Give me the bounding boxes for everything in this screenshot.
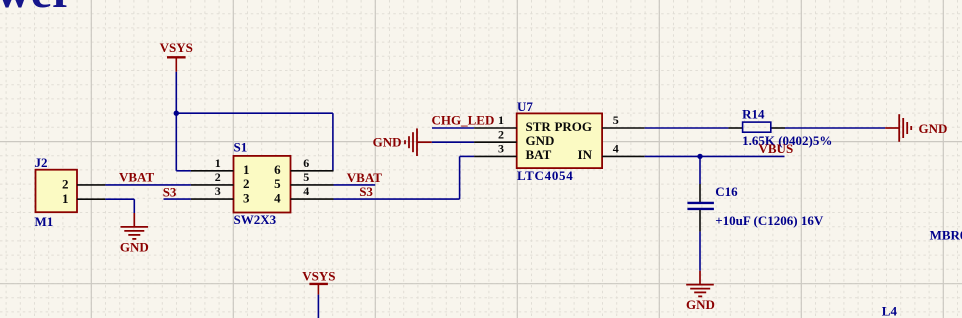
pin S1.6	[291, 156, 334, 171]
svg-text:U7: U7	[517, 99, 533, 114]
pin U7.2	[474, 127, 517, 142]
svg-text:GND: GND	[120, 239, 149, 254]
svg-text:3: 3	[215, 184, 221, 198]
power port VSYS (bottom)	[302, 268, 335, 294]
wire VBAT stub from S1.5	[334, 184, 376, 186]
svg-text:+10uF (C1206) 16V: +10uF (C1206) 16V	[715, 213, 824, 228]
wire U7.5 to R14	[645, 127, 729, 129]
svg-text:1: 1	[215, 156, 221, 170]
svg-text:VSYS: VSYS	[160, 40, 193, 55]
pin S1.4	[291, 184, 334, 199]
pin J2.2	[77, 184, 105, 186]
svg-text:SW2X3: SW2X3	[234, 212, 277, 227]
wire CHG_LED to U7.1	[432, 127, 474, 129]
svg-text:5: 5	[613, 113, 619, 127]
svg-text:4: 4	[303, 184, 309, 198]
svg-text:6: 6	[303, 156, 309, 170]
svg-text:5: 5	[274, 176, 281, 191]
pin U7.3	[474, 142, 517, 157]
wire VSYS branch to S1 pin6	[176, 113, 333, 171]
svg-text:S3: S3	[163, 184, 177, 199]
svg-text:2: 2	[62, 177, 69, 192]
pin U7.4	[602, 142, 645, 157]
pin J2.1	[77, 198, 105, 200]
svg-text:IN: IN	[578, 147, 593, 162]
svg-text:1: 1	[498, 113, 504, 127]
svg-text:VBUS: VBUS	[759, 141, 794, 156]
pin S1.5	[291, 170, 334, 185]
wire J2.1 to ground	[105, 199, 134, 213]
svg-text:GND: GND	[919, 121, 948, 136]
svg-text:PROG: PROG	[554, 119, 592, 134]
power port GND (left of U7 pin 2)	[373, 128, 432, 156]
svg-text:STR: STR	[526, 119, 552, 134]
power port VSYS (top)	[160, 40, 193, 72]
capacitor C16	[687, 184, 823, 232]
svg-text:GND: GND	[373, 134, 402, 149]
svg-text:GND: GND	[526, 133, 555, 148]
junction VSYS node	[174, 111, 179, 116]
svg-text:3: 3	[243, 190, 250, 205]
wire VSYS vertical to junction and S1 pin1	[176, 72, 191, 171]
svg-text:BAT: BAT	[526, 147, 552, 162]
svg-text:S3: S3	[359, 184, 373, 199]
wire VBUS from U7.4	[645, 155, 785, 157]
svg-text:1: 1	[62, 191, 69, 206]
svg-text:4: 4	[274, 190, 281, 205]
svg-text:4: 4	[613, 142, 619, 156]
svg-text:L4: L4	[882, 303, 898, 318]
pin U7.1	[474, 113, 517, 128]
svg-text:R14: R14	[742, 107, 765, 122]
svg-text:5: 5	[303, 170, 309, 184]
pin S1.2	[191, 170, 234, 185]
pin S1.1	[191, 156, 234, 171]
svg-text:J2: J2	[35, 155, 48, 170]
wire VBUS to C16	[699, 156, 701, 184]
svg-text:CHG_LED: CHG_LED	[432, 112, 495, 127]
svg-text:M1: M1	[35, 214, 54, 229]
ground GND (below J2)	[120, 213, 149, 254]
wire S3 stub to S1.3	[164, 198, 191, 200]
wire C16 to GND	[699, 232, 701, 271]
pin S1.3	[191, 184, 234, 199]
IC U7 LTC4054	[517, 99, 602, 183]
svg-text:S1: S1	[234, 139, 248, 154]
svg-text:VBAT: VBAT	[347, 170, 382, 185]
wire VBAT J2.2 to S1.2	[105, 184, 190, 186]
svg-text:3: 3	[498, 142, 504, 156]
ground GND (below C16)	[686, 271, 715, 312]
resistor R14	[728, 107, 832, 148]
wire VSYS bottom	[317, 295, 319, 318]
switch S1 SW2X3	[234, 139, 291, 227]
svg-text:2: 2	[215, 170, 221, 184]
connector J2	[35, 155, 78, 229]
svg-text:2: 2	[498, 127, 504, 141]
svg-text:wer: wer	[0, 0, 73, 18]
power port GND (right of R14)	[885, 114, 947, 142]
wire R14 to GND	[785, 127, 885, 129]
svg-text:1: 1	[243, 162, 250, 177]
svg-text:MBR05: MBR05	[930, 227, 962, 242]
svg-text:2: 2	[243, 176, 250, 191]
svg-text:VBAT: VBAT	[119, 169, 154, 184]
svg-text:LTC4054: LTC4054	[517, 168, 573, 183]
pin U7.5	[602, 113, 645, 128]
wire GND to U7.2	[432, 141, 474, 143]
svg-text:C16: C16	[715, 184, 738, 199]
svg-text:VSYS: VSYS	[302, 268, 335, 283]
svg-text:GND: GND	[686, 297, 715, 312]
svg-text:6: 6	[274, 162, 281, 177]
wire S3 from S1.4 to U7.3	[334, 156, 475, 199]
junction VBUS node	[697, 154, 702, 159]
